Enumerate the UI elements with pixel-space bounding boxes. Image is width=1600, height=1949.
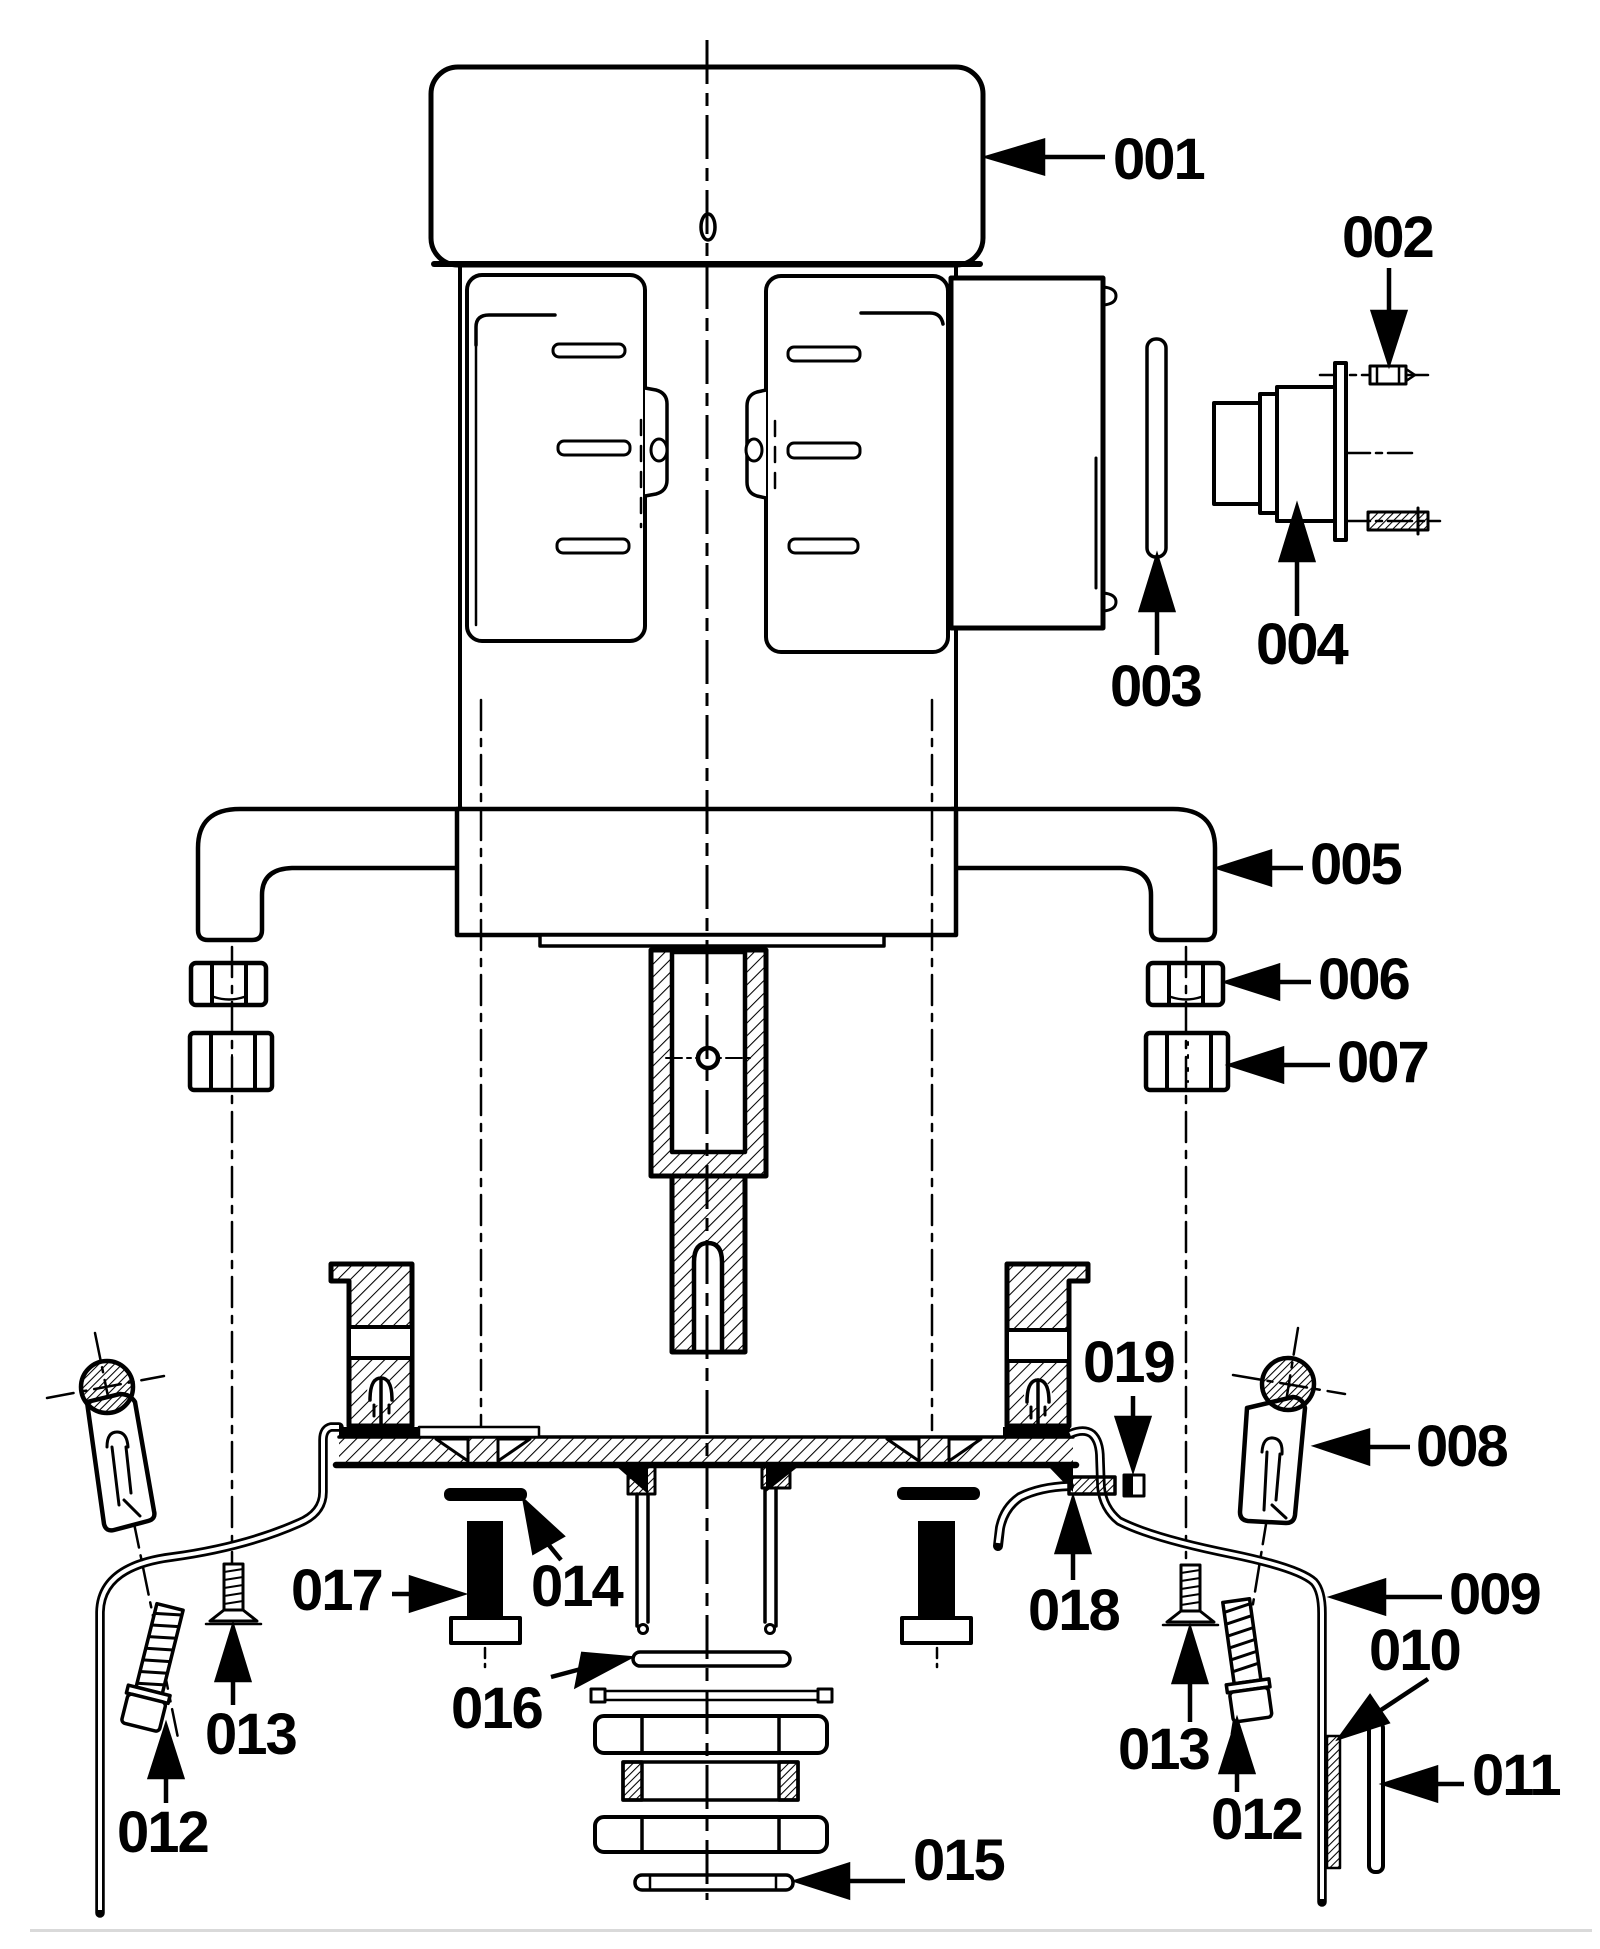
casing cover plate (lid) [336, 1427, 1076, 1465]
bell mouth wedge right [766, 1466, 799, 1492]
carrying frame 005 centre body [457, 809, 956, 935]
leader 015 [848, 1879, 905, 1884]
svg-text:011: 011 [1472, 1743, 1560, 1808]
frame lower flange [540, 935, 884, 946]
svg-text:005: 005 [1310, 832, 1402, 897]
bell tube wall right [762, 1464, 790, 1634]
handle pin 008 left [47, 1333, 178, 1738]
svg-text:001: 001 [1113, 127, 1205, 192]
leader 010 [1378, 1679, 1428, 1712]
carrying frame 005 left arm [198, 809, 462, 940]
casing shell 009 right run [1070, 1431, 1322, 1902]
leader 013 left [231, 1678, 236, 1705]
screw 013 right [1163, 1565, 1218, 1625]
svg-text:002: 002 [1342, 205, 1433, 270]
gasket strip 011 [1369, 1722, 1383, 1872]
impeller lower plate [595, 1817, 827, 1852]
bearing housing (top hat) left [331, 1264, 412, 1426]
leader 004 [1295, 558, 1300, 616]
impeller hub (hatched) [623, 1762, 798, 1800]
svg-text:012: 012 [1211, 1787, 1302, 1852]
leader 016 [551, 1669, 581, 1677]
leader 012 left [164, 1775, 169, 1803]
axis line left bolt [480, 700, 483, 1430]
leader 019 [1131, 1396, 1136, 1420]
gasket 003 [1147, 339, 1166, 557]
axis line right bolt [931, 700, 934, 1430]
impeller upper plate [595, 1716, 827, 1753]
svg-text:004: 004 [1256, 612, 1349, 677]
screw 012 left [119, 1602, 191, 1733]
gasket strip 010 [1327, 1736, 1340, 1868]
screw 012 right [1215, 1598, 1274, 1723]
round nut 007 right [1146, 1033, 1228, 1090]
handle pin 008 right [1230, 1328, 1345, 1745]
wedge at lid right corner [1048, 1466, 1073, 1492]
leader 005 [1268, 866, 1303, 871]
leader 006 [1276, 980, 1311, 985]
svg-text:018: 018 [1028, 1578, 1120, 1643]
cable gland 004 [1214, 363, 1412, 540]
lid funnel hole right [887, 1439, 981, 1461]
leader 009 [1382, 1595, 1442, 1600]
bell tube wall left [628, 1464, 655, 1634]
motor body left edge [458, 266, 462, 808]
svg-text:009: 009 [1449, 1562, 1541, 1627]
svg-text:007: 007 [1337, 1030, 1428, 1095]
shaft coupling lower [672, 1176, 745, 1352]
leader 013 right [1188, 1680, 1193, 1722]
round nut 007 left [190, 1033, 272, 1090]
leader 002 [1387, 268, 1392, 315]
leader 012 right [1235, 1770, 1240, 1792]
leader 003 [1155, 608, 1160, 655]
axis line left nuts [231, 947, 234, 1592]
axis line right nuts [1185, 947, 1188, 1558]
terminal box [951, 278, 1116, 628]
svg-text:016: 016 [451, 1676, 543, 1741]
hex nut 006 right [1148, 963, 1223, 1005]
fan cover right [746, 276, 948, 652]
cap vent hole [701, 214, 715, 240]
cap bottom edge [434, 261, 980, 267]
leader 014 [548, 1544, 561, 1560]
svg-text:019: 019 [1083, 1330, 1175, 1395]
centre line [706, 40, 709, 1900]
carrying frame 005 right arm [952, 809, 1215, 940]
lid funnel hole left [436, 1439, 530, 1461]
motor cap 001 [431, 67, 983, 265]
svg-text:010: 010 [1369, 1618, 1460, 1683]
leader 008 [1366, 1445, 1410, 1450]
svg-text:013: 013 [205, 1702, 297, 1767]
svg-text:003: 003 [1110, 654, 1202, 719]
bolt 017 left [451, 1521, 520, 1672]
motor body right edge lower [954, 628, 958, 808]
footer line [30, 1929, 1592, 1932]
leader 007 [1280, 1063, 1330, 1068]
clip 019 [1124, 1475, 1144, 1496]
shim washer [591, 1689, 832, 1702]
tube holder block [1069, 1477, 1115, 1494]
leader 017 [392, 1592, 413, 1597]
seal ring 014 right [897, 1487, 980, 1500]
leader 001 [1041, 155, 1105, 160]
svg-text:015: 015 [913, 1828, 1005, 1893]
svg-text:013: 013 [1118, 1717, 1210, 1782]
screw 002 [1320, 366, 1432, 384]
seal ring 014 left [444, 1488, 527, 1501]
hex nut 006 left [191, 963, 266, 1005]
svg-text:017: 017 [291, 1558, 382, 1623]
bolt 017 right [902, 1521, 971, 1672]
screw 013 left [206, 1564, 261, 1624]
screw at gland lower hole [1346, 508, 1440, 534]
bell mouth wedge left [616, 1466, 648, 1494]
fan cover left [467, 275, 667, 641]
leader 018 [1071, 1552, 1076, 1580]
casing shell 009 left run [100, 1427, 339, 1913]
wear plate 015 [635, 1875, 793, 1890]
svg-text:012: 012 [117, 1800, 208, 1865]
thrust washer 016 [633, 1652, 790, 1666]
svg-text:008: 008 [1416, 1414, 1508, 1479]
bearing housing (top hat) right [1007, 1264, 1088, 1426]
leader 011 [1434, 1782, 1464, 1787]
breather tube 018 [998, 1486, 1069, 1546]
svg-text:014: 014 [531, 1554, 624, 1619]
svg-text:006: 006 [1318, 947, 1410, 1012]
shaft coupling upper [651, 950, 766, 1176]
motor body right edge upper stub [954, 266, 958, 279]
